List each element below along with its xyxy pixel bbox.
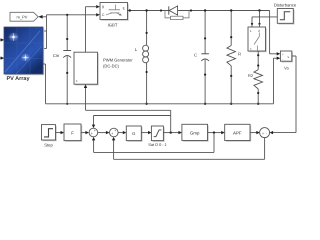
PWM Generator block — [74, 52, 99, 85]
gain block G — [126, 126, 142, 142]
bottom bus wire — [46, 103, 274, 105]
wire Step to F — [56, 131, 65, 134]
Disturbance step block — [277, 9, 294, 25]
svg-text:+: + — [111, 131, 113, 135]
wire Vo output feedback right edge — [270, 56, 297, 134]
wire duty tap to sum1 top — [92, 116, 171, 129]
svg-text:Vo: Vo — [284, 65, 289, 70]
svg-text:R: R — [238, 51, 241, 56]
wire disturbance to breaker — [251, 17, 277, 27]
svg-text:Sat D 0 : 1: Sat D 0 : 1 — [148, 142, 166, 147]
wire APF to sum3 — [250, 131, 260, 134]
svg-text:+: + — [282, 53, 284, 57]
svg-text:(DC-DC): (DC-DC) — [103, 63, 120, 68]
svg-text:PV Array: PV Array — [6, 76, 30, 82]
sum junction S3 — [260, 128, 270, 138]
wire PV m port — [43, 30, 47, 32]
wire F to sum1 — [81, 131, 89, 134]
svg-text:Cin: Cin — [53, 53, 60, 58]
wire Gmp to APF with node — [208, 131, 225, 134]
svg-text:R2: R2 — [248, 73, 254, 78]
PV input arrow Ir — [0, 38, 4, 41]
wire Sat to Gmp with node — [163, 131, 182, 134]
wire PV minus down — [43, 64, 46, 104]
svg-text:Gmp: Gmp — [190, 130, 200, 135]
breaker B1 — [248, 27, 267, 52]
block Gmp — [182, 124, 209, 141]
Step block — [42, 125, 57, 142]
voltage measurement Vo — [280, 51, 293, 62]
resistor R2 — [254, 51, 263, 105]
inductor L — [143, 9, 149, 105]
svg-text:Disturbance: Disturbance — [274, 2, 297, 7]
svg-text:-: - — [282, 57, 283, 61]
goto tag m_PV — [10, 12, 38, 21]
wire m_PV tag arrow — [38, 15, 46, 19]
wire inner feedback to sum1 bottom — [92, 133, 214, 153]
svg-text:IGBT: IGBT — [108, 22, 118, 27]
wire G to Sat — [141, 131, 151, 134]
svg-text:g: g — [102, 5, 104, 9]
saturation block — [151, 126, 164, 142]
IGBT block U1 — [100, 3, 129, 21]
svg-text:-: - — [266, 131, 267, 135]
wire PWM to gate — [86, 5, 100, 52]
node E output — [128, 9, 132, 11]
top bus wire — [131, 10, 270, 12]
svg-text:F: F — [71, 131, 74, 136]
svg-text:APF: APF — [233, 130, 242, 135]
arrow into C port — [96, 13, 100, 16]
PV Array block — [4, 27, 44, 75]
wire sum1 to sum2 — [98, 131, 110, 134]
wire duty to PWM input — [84, 84, 87, 110]
block F — [64, 124, 82, 142]
wire PV plus riser — [43, 15, 96, 49]
svg-text:C: C — [194, 53, 197, 58]
PWM Generator label — [103, 57, 133, 68]
svg-text:PWM Generator: PWM Generator — [103, 57, 133, 62]
wire sum2 to G — [118, 131, 126, 134]
capacitor C — [201, 9, 209, 105]
wire bottom bus to Vo minus — [274, 57, 281, 104]
resistor R — [227, 9, 236, 105]
wire bus to breaker — [258, 9, 260, 27]
svg-text:Step: Step — [44, 142, 53, 147]
svg-text:+: + — [114, 128, 116, 132]
svg-text:+: + — [94, 128, 96, 132]
wire duty feedback to PWM — [86, 110, 171, 132]
diode D1 — [160, 6, 192, 20]
PV input arrow T — [0, 56, 4, 59]
svg-text:+: + — [91, 131, 93, 135]
sum junction S2 — [110, 128, 119, 137]
wire top bus to Vo plus — [270, 11, 281, 56]
svg-text:G: G — [132, 131, 135, 136]
sum junction S1 — [89, 128, 98, 137]
svg-text:m_PV: m_PV — [17, 15, 28, 20]
capacitor Cin — [63, 14, 71, 105]
svg-text:+: + — [262, 131, 264, 135]
wire outer feedback sum3 to sum2 bottom — [112, 137, 265, 159]
block APF — [225, 124, 252, 141]
